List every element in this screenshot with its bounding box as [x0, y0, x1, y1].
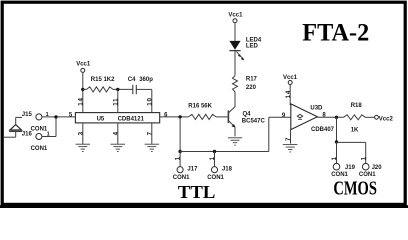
- power Vcc2: [375, 115, 379, 119]
- IC U5 body: [75, 113, 159, 123]
- pin 3 label: [77, 131, 84, 135]
- junction CMOS rail: [335, 140, 338, 143]
- power Vcc1 (U5): [81, 68, 85, 72]
- wire pin 8 to R18: [317, 116, 343, 118]
- op-amp U3D: [291, 104, 318, 130]
- svg-text:7: 7: [285, 137, 292, 141]
- svg-text:R16 56K: R16 56K: [188, 104, 212, 110]
- open-collector mark: [297, 114, 302, 119]
- pin 8 label: [322, 113, 326, 119]
- wire rail up to U3D: [268, 117, 270, 151]
- pin 3 wire: [82, 123, 84, 144]
- svg-text:U5: U5: [97, 117, 105, 123]
- pin 7 wire: [151, 123, 153, 144]
- LED4 arrows: [236, 51, 244, 60]
- svg-text:Q4: Q4: [243, 112, 252, 118]
- label CON1 (J17): [173, 175, 190, 181]
- svg-text:J17: J17: [187, 166, 198, 172]
- pin 7 label (U3D): [285, 137, 292, 141]
- connector J17: [177, 167, 183, 173]
- label CON1 (J19): [331, 172, 348, 178]
- svg-text:J15: J15: [22, 112, 33, 118]
- junction CMOS tap: [335, 116, 338, 119]
- wire diode anode down: [15, 131, 17, 137]
- svg-text:Vcc1: Vcc1: [283, 75, 298, 81]
- wire diode top to J15: [16, 116, 22, 118]
- label R17: [246, 77, 258, 83]
- svg-text:TTL: TTL: [178, 182, 216, 202]
- label CDB407: [311, 127, 335, 133]
- svg-text:220: 220: [246, 85, 257, 91]
- pin 14 label (U3D): [285, 90, 292, 98]
- pin 9 label: [282, 113, 286, 119]
- label Vcc1 (LED): [228, 13, 243, 19]
- wire Vcc1 to pin 14: [82, 72, 84, 112]
- pin 7 label: [146, 131, 153, 135]
- svg-text:CON1: CON1: [331, 172, 348, 178]
- pin 1 of J15: [46, 112, 49, 118]
- wire pin 11: [117, 89, 119, 112]
- svg-text:CDB407: CDB407: [311, 127, 335, 133]
- label J19: [345, 165, 356, 171]
- wire Vcc1 to U3D pin 14: [289, 85, 291, 106]
- svg-text:1: 1: [209, 156, 216, 160]
- label U3D: [310, 105, 323, 111]
- svg-text:FTA-2: FTA-2: [302, 20, 369, 47]
- wire R16 to Q4 base: [216, 116, 228, 118]
- label CON1 (J16): [31, 146, 48, 152]
- pin 11 label: [112, 98, 119, 106]
- svg-text:1: 1: [361, 156, 368, 160]
- label CON1 (J20): [359, 172, 376, 178]
- svg-text:CON1: CON1: [173, 175, 190, 181]
- label CMOS: [333, 179, 377, 200]
- ground (Q4): [228, 138, 242, 145]
- wire J20 drop: [365, 142, 367, 163]
- wire pin 6 to R16: [160, 116, 189, 118]
- ground (U5 pin 7): [145, 144, 160, 151]
- label R15 1K2: [91, 77, 115, 83]
- label CON1 (J18): [207, 175, 224, 181]
- capacitor C4: [133, 85, 137, 94]
- label J17: [187, 166, 198, 172]
- svg-text:R17: R17: [246, 77, 258, 83]
- resistor R15: [87, 87, 114, 92]
- svg-text:Vcc1: Vcc1: [76, 62, 91, 68]
- diode D (input): [9, 125, 22, 132]
- pin 1 of J17: [175, 156, 182, 160]
- wire to pin 9: [269, 116, 291, 118]
- wire Q4 emitter down: [234, 127, 236, 136]
- label R18: [351, 103, 363, 109]
- wire LED to R17: [234, 51, 236, 76]
- svg-text:CON1: CON1: [31, 146, 48, 152]
- connector J15: [36, 114, 42, 120]
- Q4 collector: [228, 92, 235, 113]
- svg-text:360p: 360p: [139, 77, 153, 83]
- svg-text:CON1: CON1: [359, 172, 376, 178]
- svg-text:CON1: CON1: [207, 175, 224, 181]
- transistor Q4 base bar: [227, 111, 229, 123]
- pin 14 label: [77, 97, 84, 105]
- svg-text:14: 14: [285, 90, 292, 98]
- label 1K: [351, 128, 359, 134]
- wire Vcc1 to LED: [234, 23, 236, 41]
- wire J18 drop: [214, 152, 216, 167]
- label CDB4121: [118, 117, 145, 123]
- junction rail at pin 14: [81, 88, 84, 91]
- wire R15 to C4: [113, 88, 133, 90]
- label Q4: [243, 112, 252, 118]
- svg-text:U3D: U3D: [310, 105, 323, 111]
- svg-text:J18: J18: [222, 166, 233, 172]
- wire pin 10: [151, 89, 153, 112]
- svg-text:3: 3: [77, 131, 84, 135]
- pin 1 of J20: [361, 156, 368, 160]
- ground (U5 pin 4): [111, 144, 126, 151]
- svg-text:14: 14: [77, 97, 84, 105]
- label R16 56K: [188, 104, 212, 110]
- pin 4 label: [112, 131, 119, 135]
- resistor R17: [233, 76, 238, 92]
- svg-text:CMOS: CMOS: [333, 179, 377, 200]
- svg-text:LED: LED: [246, 43, 259, 49]
- junction rail at pin 11: [116, 88, 119, 91]
- label TTL: [178, 182, 216, 202]
- svg-text:R15 1K2: R15 1K2: [91, 77, 115, 83]
- power Vcc1 (U3D): [288, 81, 292, 85]
- label Vcc2: [379, 117, 394, 123]
- svg-text:1K: 1K: [351, 128, 359, 134]
- label Vcc1 (U3D): [283, 75, 298, 81]
- pin 1 of J19: [331, 156, 338, 160]
- label LED: [246, 43, 259, 49]
- resistor R16: [189, 114, 217, 119]
- label Vcc1 (U5): [76, 62, 91, 68]
- pin 10 label: [146, 97, 153, 105]
- junction J15/J16 node: [54, 115, 57, 118]
- wire J19 drop: [336, 142, 338, 163]
- pin 6 label: [164, 112, 168, 118]
- label BC547C: [242, 119, 266, 125]
- power Vcc1 (LED): [233, 19, 237, 23]
- wire U3D pin 7 down: [290, 130, 292, 144]
- wire J15 to U5 pin 5: [42, 116, 75, 118]
- pin 1 of J16: [47, 132, 50, 138]
- label U5: [97, 117, 105, 123]
- junction J18 tap: [213, 150, 216, 153]
- wire diode cathode up: [15, 117, 17, 125]
- pin 1 of J18: [209, 156, 216, 160]
- svg-text:4: 4: [112, 131, 119, 135]
- label J15: [22, 112, 33, 118]
- svg-text:Vcc1: Vcc1: [228, 13, 243, 19]
- wire R18 to Vcc2: [365, 116, 374, 118]
- label C4 360p: [128, 77, 153, 83]
- ground (U5 pin 3): [76, 144, 91, 151]
- svg-text:10: 10: [146, 97, 153, 105]
- connector J18: [211, 167, 217, 173]
- svg-text:11: 11: [112, 98, 119, 106]
- svg-text:1: 1: [175, 156, 182, 160]
- wire J17 drop: [179, 152, 181, 167]
- svg-text:CON1: CON1: [31, 127, 48, 133]
- label J20: [372, 165, 383, 171]
- svg-text:R18: R18: [351, 103, 363, 109]
- connector J16: [36, 133, 42, 139]
- svg-text:CDB4121: CDB4121: [118, 117, 145, 123]
- svg-text:7: 7: [146, 131, 153, 135]
- svg-text:J20: J20: [372, 165, 383, 171]
- svg-text:BC547C: BC547C: [242, 119, 266, 125]
- wire CMOS tap down: [336, 117, 338, 142]
- label J16: [22, 132, 33, 138]
- TTL rail: [180, 151, 269, 153]
- pin 4 wire: [117, 123, 119, 144]
- svg-text:J16: J16: [22, 132, 33, 138]
- junction TTL rail left: [178, 150, 181, 153]
- connector J20: [362, 163, 369, 170]
- CMOS rail: [337, 141, 366, 143]
- resistor R18: [344, 115, 366, 120]
- wire C4 to pin 10: [136, 88, 151, 90]
- Q4 emitter: [228, 121, 235, 128]
- wire TTL tap down: [179, 117, 181, 152]
- ground (U3D pin 7): [283, 145, 298, 152]
- wire J16 up to node: [55, 117, 57, 137]
- label 220: [246, 85, 257, 91]
- wire diode bottom to frame: [4, 136, 16, 138]
- svg-text:J19: J19: [345, 165, 356, 171]
- pin 5 label: [69, 112, 73, 118]
- svg-text:Vcc2: Vcc2: [379, 117, 394, 123]
- connector J19: [333, 163, 340, 170]
- wire rail to R15: [83, 88, 87, 90]
- LED4 diode: [229, 41, 240, 51]
- svg-text:1: 1: [331, 156, 338, 160]
- wire J16 right: [42, 136, 56, 138]
- label LED4: [246, 37, 262, 43]
- title FTA-2: [302, 20, 369, 47]
- svg-text:C4: C4: [128, 77, 136, 83]
- label J18: [222, 166, 233, 172]
- junction TTL tap: [178, 115, 181, 118]
- label CON1 (J15): [31, 127, 48, 133]
